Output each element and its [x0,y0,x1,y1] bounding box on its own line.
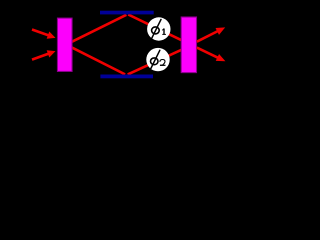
Mach-Zehnder interferometer diagram [0,0,266,89]
mirror M2 (bottom) [100,75,153,79]
mirror M1 (top) [100,11,154,15]
beam splitter BS1 [57,18,72,71]
input beam arrow (lower-left) [32,50,56,59]
phase shifter phi1 circle [147,17,170,40]
phase shifter phi2 circle [146,48,169,71]
beam splitter BS2 [181,17,196,73]
wire: lower arm BS1 to mirror M2 [72,47,126,74]
wire: upper arm BS1 to mirror M1 [72,15,127,42]
wire: lower arm M2 to BS2 [128,50,182,75]
label phi_2 [151,50,166,69]
input beam arrow (upper-left) [32,30,56,39]
output beam arrow (lower-right) [197,48,226,62]
wire: upper arm M1 to BS2 [128,15,182,41]
output beam arrow (upper-right) [197,27,225,41]
label phi_1 [152,19,166,38]
